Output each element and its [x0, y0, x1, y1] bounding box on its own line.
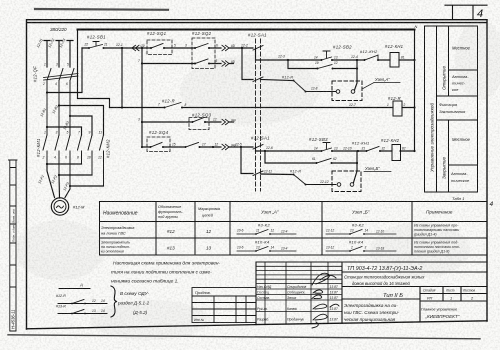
- phase wire L1: [44, 41, 50, 68]
- breaker linkage: [44, 74, 79, 81]
- relay R coil rung: [110, 48, 415, 108]
- motor M1: [51, 198, 68, 215]
- signature area grid: [256, 262, 342, 324]
- control rail tap from phase L1: [47, 48, 82, 93]
- rail jog at SA1: [256, 48, 269, 60]
- left margin column: [9, 160, 18, 331]
- reversing crossover wire 1: [47, 163, 82, 165]
- drawing frame bottom: [27, 321, 488, 329]
- junction dots rung 1: [356, 59, 416, 61]
- junction dots on branches: [46, 104, 71, 128]
- legend brace: [111, 286, 117, 317]
- node B riser: [354, 151, 358, 183]
- crossover junction dots: [46, 163, 71, 187]
- reversing crossover wire 3: [70, 185, 104, 187]
- reversing crossover wire 2: [59, 174, 92, 176]
- node A riser to rung: [355, 60, 358, 90]
- appendix table: [192, 288, 256, 323]
- page top edge scan line: [35, 8, 168, 11]
- branch to node B via R contact: [240, 146, 242, 148]
- neutral rail: [414, 30, 416, 152]
- motor feed wires: [47, 164, 70, 198]
- limit switch SQ3: [142, 121, 234, 123]
- page bottom edge scan line: [8, 335, 480, 339]
- control rail A lower branch to node A: [241, 47, 243, 49]
- sheet number box: [445, 5, 487, 19]
- auxiliary contact SQ3-2: [185, 146, 201, 148]
- cable break chevrons left: [132, 45, 139, 50]
- branch wire to KM2 column 2: [70, 116, 92, 135]
- control rail A: [82, 47, 253, 49]
- neutral feeder drop to relay row: [78, 30, 110, 108]
- valve control mode table: [425, 26, 478, 192]
- auxiliary row from SQ2: [142, 63, 234, 65]
- node A junction box: [332, 81, 362, 101]
- holding contact KH2: [265, 151, 357, 163]
- junction node 12-1: [121, 47, 143, 49]
- phase wire L3: [67, 41, 73, 68]
- node B junction box: [332, 171, 361, 192]
- title block outer: [256, 262, 487, 325]
- branch wire to KM2 column 3: [59, 106, 104, 136]
- control tap wire to neutral: [78, 29, 415, 31]
- circuit variants table: [100, 202, 488, 256]
- branch wire to KM2 column 1: [47, 127, 82, 135]
- scan noise overlay: [0, 0, 1, 1]
- handwritten signatures: [312, 273, 339, 328]
- limit switch SQ4 rung: [142, 146, 253, 148]
- feeder riser wire: [141, 48, 143, 147]
- phase wire L2: [56, 41, 62, 68]
- holding contact KH1: [288, 60, 357, 69]
